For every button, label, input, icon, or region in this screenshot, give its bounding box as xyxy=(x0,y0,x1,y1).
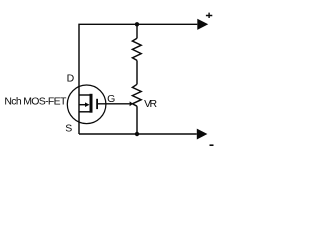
svg-text:Nch MOS-FET: Nch MOS-FET xyxy=(4,96,67,108)
svg-text:D: D xyxy=(67,73,75,85)
svg-text:G: G xyxy=(107,93,115,105)
svg-text:S: S xyxy=(65,123,72,135)
svg-text:VR: VR xyxy=(144,98,157,110)
